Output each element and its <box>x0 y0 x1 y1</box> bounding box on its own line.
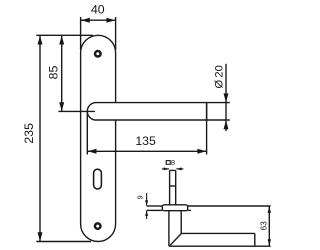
svg-text:63: 63 <box>259 221 268 230</box>
dim 235 arrow top <box>38 36 43 45</box>
dim d20 dimension line <box>225 64 227 131</box>
handle lever front view <box>87 103 206 120</box>
dim 63 arrow bottom (pointing down) <box>268 239 271 246</box>
screw hole bottom <box>95 223 101 229</box>
dim sq8 arrow line left <box>162 168 169 170</box>
side view: bend inner diagonal <box>170 234 181 246</box>
side view: spindle right line <box>175 170 177 205</box>
svg-text:8: 8 <box>171 158 175 167</box>
label sq8 square glyph <box>166 161 170 165</box>
side view: neck flange <box>162 205 187 211</box>
dim 235 bottom extension line <box>36 241 91 243</box>
dim 85 arrow bottom <box>59 102 64 111</box>
side view: spindle left line <box>169 170 171 205</box>
dim d20 extension line bottom <box>207 119 230 121</box>
side view: spindle top cap <box>170 169 176 171</box>
dim 235 arrow bottom <box>38 232 43 241</box>
dim 9 upper arrow line <box>146 193 148 206</box>
dim sq8 arrow left (pointing right) <box>164 167 170 170</box>
dim 135 dimension line <box>87 150 206 152</box>
dim 235/85 top extension line <box>36 34 93 36</box>
dim 235 dimension line <box>39 35 41 241</box>
dim 40 arrow left <box>81 18 90 23</box>
dim 9 arrow (pointing down) <box>145 200 148 206</box>
side view: plate top line right / 63 top extension <box>188 205 271 207</box>
dim 40 arrow right <box>106 18 115 23</box>
side view: grip bottom line / 63 bottom extension <box>169 244 271 247</box>
dim 63 dimension line <box>268 206 270 246</box>
dim 9 arrow (pointing up) <box>145 210 148 216</box>
screw hole top <box>95 51 101 57</box>
dim 85 dimension line <box>61 35 63 111</box>
side view: neck left edge <box>168 211 170 246</box>
svg-text:40: 40 <box>91 2 105 16</box>
side view: plate bottom line right <box>188 209 191 211</box>
dim 135 arrow right <box>197 149 206 154</box>
dim 40 extension line right <box>115 17 117 50</box>
dim 135 extension line left <box>86 112 88 155</box>
dim 63 arrow top (pointing up) <box>268 206 271 213</box>
side view: grip top line <box>181 232 255 234</box>
side view: spindle joint line <box>170 185 176 187</box>
svg-text:85: 85 <box>47 66 61 80</box>
dim sq8 arrow line right <box>176 168 183 170</box>
dim d20 extension line top <box>207 102 230 104</box>
dim 85 bottom extension line (handle centerline) <box>58 110 95 112</box>
dim 40 extension line left <box>80 17 82 50</box>
side view: grip end line <box>254 233 256 246</box>
side view: plate top line <box>147 205 163 207</box>
backplate front view <box>81 35 116 241</box>
svg-text:235: 235 <box>22 123 36 144</box>
svg-text:135: 135 <box>135 134 156 148</box>
side view: neck right edge <box>180 211 182 234</box>
keyhole slot <box>94 169 102 189</box>
dim 135 arrow left <box>88 149 97 154</box>
dim 85 arrow top <box>59 36 64 45</box>
svg-text:9: 9 <box>136 195 145 199</box>
svg-text:Ø 20: Ø 20 <box>214 65 226 88</box>
dim d20 arrow bottom (pointing up) <box>224 120 229 129</box>
dim 135 extension line right (handle end line) <box>206 103 208 155</box>
dim 9 lower arrow line <box>146 211 148 219</box>
dim sq8 arrow right (pointing left) <box>176 167 182 170</box>
dim d20 arrow top (pointing down) <box>224 93 229 102</box>
dim 40 dimension line <box>81 19 116 21</box>
side view: plate bottom line left <box>147 209 163 211</box>
